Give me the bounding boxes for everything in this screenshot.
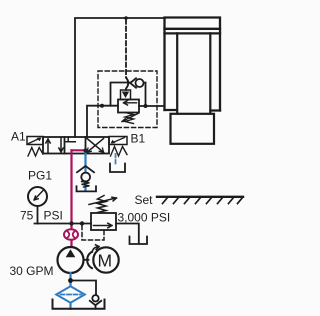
svg-text:A1: A1	[11, 130, 26, 144]
node on CB outlet	[144, 104, 148, 108]
RV1 internal arrow	[94, 223, 113, 228]
motor M1	[93, 247, 118, 272]
svg-text:M: M	[98, 251, 113, 271]
shaft coupling	[84, 259, 89, 261]
DV1 right cell crossed arrows	[87, 139, 104, 153]
counterbalance enclosure (dashed box)	[98, 71, 157, 128]
svg-text:75: 75	[20, 209, 34, 223]
wire: pressure line P (magenta) pump to valve	[70, 150, 72, 247]
svg-text:PG1: PG1	[28, 169, 52, 183]
svg-text:Set: Set	[135, 193, 154, 207]
wire: counterbalance pilot line (dashed)	[125, 20, 127, 78]
reservoir T1	[53, 300, 105, 309]
DV1 centre blocked port	[66, 137, 75, 142]
back-pressure check valve CV2 seat	[77, 166, 94, 172]
wire: bypass loop around counterbalance	[111, 83, 146, 107]
DV1 left cell down arrow	[59, 138, 63, 152]
wire: counterbalance outlet to cylinder rod end	[139, 105, 165, 107]
svg-text:3,000 PSI: 3,000 PSI	[118, 211, 171, 225]
bypass check valve CV3 ball	[92, 295, 98, 301]
spring B1 side	[111, 147, 128, 157]
wire: cap-end line valve A to cylinder	[75, 18, 165, 137]
directional valve DV1 body	[43, 137, 109, 154]
node suction junction	[68, 278, 73, 283]
tank T2 under check	[77, 186, 97, 191]
svg-text:PSI: PSI	[44, 209, 63, 223]
node on CB inlet	[100, 104, 104, 108]
svg-text:30 GPM: 30 GPM	[10, 264, 54, 278]
CV2 ball	[81, 173, 90, 182]
DV1 drain line (dashed)	[115, 154, 117, 166]
wire: pilot hop over bypass	[126, 78, 128, 91]
load block	[171, 114, 215, 144]
pump P1	[58, 247, 84, 273]
CB1 spring	[125, 113, 134, 124]
relief valve RV1 body	[91, 213, 116, 230]
RV1 spring	[98, 196, 107, 213]
solenoid B1 box	[109, 137, 127, 145]
wire: suction line (blue)	[69, 273, 71, 309]
wire: relief outlet to tank	[116, 224, 139, 244]
wire: valve B to counterbalance inlet	[87, 106, 118, 137]
svg-text:B1: B1	[131, 132, 146, 146]
solenoid A1 box	[27, 137, 43, 145]
counterbalance pilot head	[121, 90, 131, 100]
node main line / P crossing	[69, 221, 73, 225]
CV2 spring	[82, 182, 90, 188]
RV1 adjust arrow	[89, 197, 117, 204]
check valve CV1 ball	[136, 79, 144, 87]
counterbalance valve CB1 body	[118, 100, 139, 113]
CV3 seat	[90, 301, 101, 305]
gauge PG1	[28, 187, 47, 224]
cylinder C1 barrel	[165, 18, 221, 111]
node: pilot tap on cap line	[124, 16, 128, 20]
CB1 spring adjust arrow	[122, 114, 138, 122]
DV1 left cell up arrow	[46, 139, 50, 153]
RV1 pilot (dashed)	[82, 226, 104, 241]
drain tank T3	[110, 164, 125, 173]
node P-T junction	[83, 148, 87, 152]
flow meter FM1	[64, 229, 78, 240]
piston	[165, 29, 221, 34]
filter F1	[56, 286, 85, 302]
wire: filter bypass	[71, 281, 97, 295]
node pilot tap	[80, 221, 84, 225]
rotation arrow	[92, 245, 99, 252]
DV1 cell dividers	[65, 137, 86, 154]
wire: main gauge line to relief	[35, 223, 92, 225]
ground hatching	[157, 197, 243, 204]
CB1 internal flow arrow	[124, 101, 137, 105]
tank T4 relief	[130, 237, 148, 245]
spring A1 side	[28, 148, 43, 157]
check valve CV1 (counterbalance bypass) seat	[130, 78, 136, 87]
rod	[177, 33, 210, 113]
wire: tank line T (blue)	[84, 151, 86, 191]
